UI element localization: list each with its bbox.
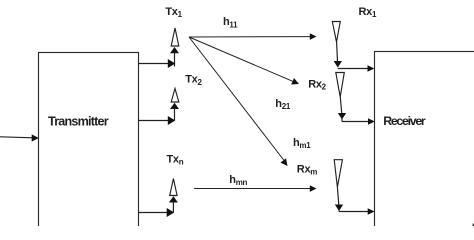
input arrow <box>0 137 34 138</box>
wire Tx2 feed <box>138 120 169 122</box>
antenna Rxm <box>334 160 342 188</box>
wire Rx2 to receiver <box>342 121 370 123</box>
antenna Tx2 <box>171 89 179 103</box>
channel hmn arrow <box>194 188 310 190</box>
receiver block <box>375 52 474 233</box>
channel hm1 arrow <box>189 37 284 160</box>
channel h21 arrow <box>189 37 293 81</box>
wire Rx1 to receiver <box>338 68 370 70</box>
antenna Rx1 <box>332 22 340 43</box>
antenna Rx2 <box>336 73 345 98</box>
svg-text:Receiver: Receiver <box>383 114 426 128</box>
transmitter block <box>39 53 139 233</box>
channel h11 arrow <box>189 36 311 38</box>
wire Tx1 feed <box>138 63 169 65</box>
antenna Txn <box>170 179 177 196</box>
antenna Tx1 <box>171 28 179 46</box>
wire Rxm to receiver <box>339 211 370 213</box>
svg-text:Transmitter: Transmitter <box>48 114 109 128</box>
wire Txn feed <box>138 212 168 214</box>
